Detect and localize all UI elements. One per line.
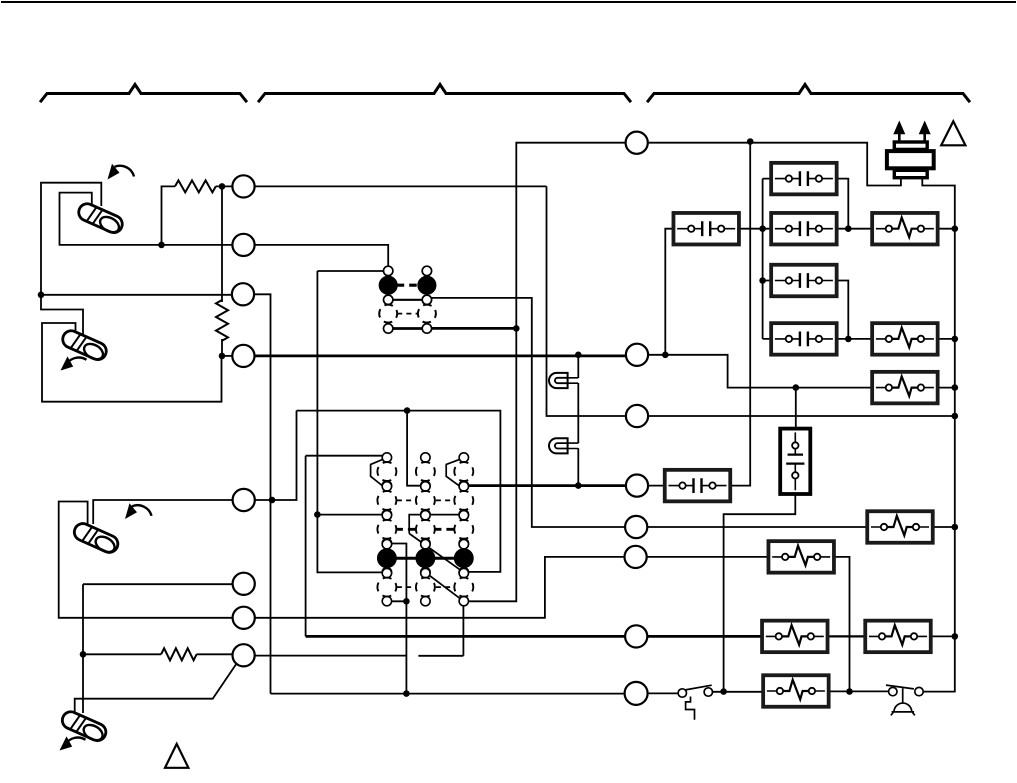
capacitor box CB4 (771, 323, 837, 355)
lamp L1 (549, 373, 578, 388)
wire col1 G5 contact to junction (387, 600, 407, 602)
wire lamp chain drops (577, 355, 579, 486)
contact small col3 G4 top (459, 540, 468, 549)
resistor box RB7 (865, 621, 931, 653)
wire matrix top rail (297, 411, 501, 572)
wire drop to matrix col2 row1 (407, 411, 421, 486)
junction vbox feed (793, 384, 800, 391)
contact open (dashed) col2 G3 (416, 520, 435, 539)
contact small col3 G1 bottom (459, 481, 468, 490)
node C8 (233, 644, 255, 666)
junction C8 resistor branch (80, 651, 87, 658)
node C5 (233, 489, 255, 511)
contact small col1 G3 bottom (382, 539, 391, 548)
wire S1 left leg down matrix col1 (317, 271, 383, 572)
junction lamp top (575, 352, 582, 359)
wire resistor R2 drop (221, 186, 223, 302)
switch S3 hook actuator (686, 697, 695, 720)
junction CB1/CB2 right (845, 225, 852, 232)
wire RB5 right drop to bottom row (834, 557, 850, 692)
junction S1 row3 out (513, 325, 520, 332)
wire RB8 to switch S4 (829, 690, 890, 692)
wire RB7 to rail (931, 635, 955, 637)
wire N6 to RB5 (647, 556, 769, 558)
bridge dashes S1 closed row (heavy) (397, 284, 419, 287)
contact small col2 G4 bottom (421, 568, 430, 577)
contact small col1 G4 top (382, 540, 391, 549)
node N8 (625, 682, 648, 705)
junction rail RB4 row (952, 524, 959, 531)
wire key1 left stem inner loop to connector C2 (60, 193, 234, 245)
wire key3 right stem to C5 (93, 500, 233, 524)
wire horn right lead down rail loop (922, 178, 955, 692)
page top rule (2, 1, 1015, 3)
wire C8 left from junction (83, 653, 161, 655)
wire CB2 to RB1 (837, 228, 873, 230)
wire N8 to switch S3 (647, 692, 679, 694)
junction rail row2 (952, 225, 959, 232)
wire CB5 to CB2 (739, 228, 771, 230)
wire C8 right with hop gap (254, 601, 463, 656)
junction bottom row left (720, 688, 727, 695)
resistor box RB6 (762, 621, 828, 653)
junction cap rail row2 (759, 225, 766, 232)
junction bottom wire (403, 690, 410, 697)
rotation arrow K3 (125, 503, 152, 519)
contact small col3 G3 top (459, 511, 468, 520)
contact small col3 G2 bottom (459, 510, 468, 519)
brace (section 1) (41, 85, 246, 102)
junction R2/C4 (219, 353, 226, 360)
capacitor box CB5 (673, 213, 739, 245)
junction matrix top rail (404, 407, 411, 414)
wire S1 row3 out to junction (431, 327, 516, 330)
switch S2 col1 arm (371, 459, 383, 486)
junction rail RB3 row (952, 384, 959, 391)
S1 contact closed (filled) A (379, 276, 397, 294)
contact small col2 G2 bottom (421, 510, 430, 519)
wire key1 right stem to outer loop down to node (41, 183, 101, 295)
contact open (dashed) col2 G5 (416, 578, 435, 597)
wire C2 elbow to switch S1 top (254, 245, 388, 266)
node N2 (626, 344, 648, 366)
node C7 (233, 607, 255, 629)
S1 contact small B y270 (422, 266, 431, 275)
wire N1 right to horn (648, 143, 901, 186)
wire R2 to junction on C4 line (221, 339, 223, 356)
wire C4 to N2 (thick) (254, 354, 626, 357)
wire C1 to riser at x546 (254, 185, 547, 187)
wire R3 to C8 (197, 653, 234, 655)
horn / sounder BZ1 (887, 142, 934, 178)
contact small col1 G1 top (382, 453, 391, 462)
contact open (dashed) col1 G2 (377, 491, 396, 510)
contact closed (filled) col3 G4 (455, 549, 473, 567)
wire RB3 to rail (938, 387, 955, 389)
S1 contact open (dashed) B (418, 305, 436, 323)
wire RB2 to rail (938, 338, 955, 340)
node C3 (232, 283, 254, 305)
contact closed (filled) col1 G4 (378, 549, 396, 567)
horn arrow right (919, 121, 931, 143)
wire RB6 to RB7 (828, 635, 866, 637)
resistor R3 (161, 648, 196, 660)
wire col1 G1 top contact (306, 456, 383, 637)
wire junction drop to CB6 (730, 142, 750, 486)
junction R1/R2 (219, 183, 226, 190)
node N4 (626, 475, 648, 497)
wire S1 row2 strap (388, 299, 427, 301)
junction key1/key2 (38, 292, 45, 299)
resistor R2 (216, 300, 228, 341)
wire capacitor left rail (763, 179, 772, 339)
wire RB1 to rail (938, 228, 955, 230)
contact open (dashed) col1 G1 (377, 462, 396, 481)
triangle note marker bottom left (165, 744, 188, 768)
wire diagonal arm col2 G4 to col3 G5 (425, 572, 463, 601)
wire key3 left stem to C7 (59, 502, 233, 618)
contact small col1 G2 bottom (382, 510, 391, 519)
key switch K2 (60, 328, 109, 363)
contact open (dashed) col2 G2 (416, 491, 435, 510)
junction CB3/CB4 right (845, 336, 852, 343)
S1 contact small A y328 (384, 324, 393, 333)
switch S4 plunger and dome (891, 688, 915, 715)
wire CB3 right drop (837, 281, 849, 339)
junction rail N3 row (952, 413, 959, 420)
wire col3 G1 contact to N4 and CB6 (thick) (468, 484, 626, 487)
junction bottom row right (846, 688, 853, 695)
node N7 (625, 625, 647, 647)
wire N4 to CB6 (648, 485, 665, 487)
contact small col1 G5 top (382, 568, 391, 577)
contact small col2 G1 top (421, 453, 430, 462)
junction R1 riser (158, 242, 165, 249)
node C2 (232, 234, 254, 256)
wire C3 right elbow long drop (254, 294, 271, 693)
S1 contact small A y299 (384, 295, 393, 304)
wire bottom row to connector N8 (271, 693, 627, 695)
S1 contact small B y299 (422, 295, 431, 304)
bridge dashes G3 row (heavy) (395, 528, 455, 531)
triangle note marker top right (941, 121, 965, 145)
wire C8 diagonal to key4 left stem (75, 664, 237, 713)
resistor box RB4 (867, 511, 933, 543)
wire vbox feed (795, 388, 797, 429)
node C1 (232, 175, 254, 197)
resistor box RB1 (872, 213, 938, 245)
contact small col3 G5 bottom (459, 596, 468, 605)
wire N5 to RB4 (647, 526, 867, 528)
switch S3 contact circles (678, 689, 686, 697)
wire C1 riser corner to N3 (547, 186, 627, 416)
switch S3 lever (685, 685, 712, 690)
contact small col2 G3 bottom (421, 539, 430, 548)
wire riser resistor R1 (162, 186, 176, 245)
rotation arrow K2 (61, 356, 87, 370)
S1 contact open (dashed) A (379, 305, 397, 323)
capacitor box CB7 (vertical) (780, 429, 810, 494)
horn arrow left (893, 121, 905, 143)
contact open (dashed) col3 G3 (454, 520, 473, 539)
switch S2 col3 arm (446, 459, 460, 486)
contact small col1 G5 bottom (382, 596, 391, 605)
contact small col2 G5 bottom (421, 596, 430, 605)
junction C5 branch (269, 497, 276, 504)
resistor box RB8 (763, 675, 829, 707)
contact small col2 G3 top (421, 511, 430, 520)
wire branch to col1 G2 contact (317, 514, 382, 516)
contact small col2 G5 top (421, 568, 430, 577)
S1 contact closed (filled) B (418, 276, 436, 294)
contact small col2 G4 top (421, 540, 430, 549)
junction N1 wire / CB6 drop (747, 138, 754, 145)
contact small col2 G2 top (421, 482, 430, 491)
node N6 (625, 546, 647, 568)
S1 contact small B y328 (422, 324, 431, 333)
wire C6 to key4 right stem (83, 584, 233, 713)
wire key2 right stem from junction (41, 295, 83, 336)
wire N1 left riser to matrix col3 bottom (468, 143, 626, 602)
node C6 (233, 573, 255, 595)
wire S1 row2 out to N5 (431, 298, 625, 527)
wire CB4 to RB2 (837, 338, 873, 340)
resistor box RB5 (768, 541, 834, 573)
wire C7 to N6 (254, 557, 625, 618)
contact small col1 G2 top (382, 482, 391, 491)
key switch K4 (59, 709, 108, 744)
wire riser to CB5 (665, 229, 673, 355)
switch S4 contact circles (889, 687, 897, 695)
contact open (dashed) col2 G1 (416, 462, 435, 481)
capacitor box CB1 (771, 163, 837, 195)
resistor box RB2 (872, 323, 938, 355)
switch S4 lever (886, 685, 914, 689)
rotation arrow K4 (60, 736, 86, 750)
wire S3 to RB8 (712, 691, 763, 693)
contact small col3 G1 top (459, 453, 468, 462)
wire col2 G2 elbow (409, 515, 421, 534)
contact small col3 G3 bottom (459, 539, 468, 548)
contact small col3 G5 top (459, 568, 468, 577)
junction rail RB7 row (952, 633, 959, 640)
contact open (dashed) col1 G5 (377, 578, 396, 597)
wire CB1 right drop (837, 179, 849, 229)
contact open (dashed) col3 G2 (454, 491, 473, 510)
node N3 (626, 405, 648, 427)
lamp L2 (549, 438, 578, 453)
contact small col1 G3 top (382, 511, 391, 520)
junction col1 G5 (403, 598, 410, 605)
capacitor box CB3 (771, 265, 837, 297)
wire RB4 to rail (933, 526, 955, 528)
bridge dashes S1 open row (397, 313, 418, 315)
bridge dashes G5 row (397, 586, 455, 588)
junction CB5 riser (662, 352, 669, 359)
rotation arrow K1 (108, 164, 135, 180)
capacitor box CB6 (665, 470, 731, 502)
junction lamp bottom (575, 482, 582, 489)
key switch K1 (76, 201, 125, 236)
wire diagonal arm col2 to col3 G4 (409, 534, 464, 573)
key switch K3 (71, 521, 120, 556)
node N5 (625, 516, 647, 538)
wire S1 row3 strap (thick) (388, 327, 427, 330)
node N1 (626, 132, 648, 154)
junction rail CB4 row (952, 336, 959, 343)
brace (section 3) (648, 85, 969, 102)
contact small col1 G4 bottom (382, 568, 391, 577)
wire C5 right elbow riser (254, 411, 297, 500)
bridge solid G4 row (387, 557, 464, 560)
junction cap rail row3 (759, 277, 766, 284)
resistor R1 (175, 180, 216, 192)
contact open (dashed) col3 G5 (454, 578, 473, 597)
contact small col3 G4 bottom (459, 568, 468, 577)
S1 contact small A y270 (384, 266, 393, 275)
wire bottom thick rail to lamp boxes row (through N7) (306, 635, 763, 638)
junction col1 G2 branch (314, 511, 321, 518)
wire R1 to C1 (216, 185, 233, 187)
node C4 (232, 345, 254, 367)
contact open (dashed) col3 G1 (454, 462, 473, 481)
wire key2 left stem inner loop riser (42, 323, 222, 402)
bridge dashes G2 row (397, 499, 455, 501)
wire N3 right to rail (648, 415, 955, 417)
wire vbox bottom bend long drop (724, 494, 796, 692)
wire col2-col3 G2 link (425, 514, 463, 516)
contact small col2 G1 bottom (421, 481, 430, 490)
wire long node line to C3 (41, 294, 233, 296)
contact closed (filled) col2 G4 (416, 549, 434, 567)
contact small col3 G2 top (459, 482, 468, 491)
resistor box RB3 (872, 372, 938, 404)
contact open (dashed) col1 G3 (377, 520, 396, 539)
wire N2 right to RB3 (648, 355, 872, 388)
capacitor box CB2 (771, 213, 837, 245)
wire col1 G3 contact drop (387, 544, 407, 694)
contact small col1 G1 bottom (382, 481, 391, 490)
wire stub junction to C4 (222, 355, 233, 357)
brace (section 2) (259, 85, 630, 102)
